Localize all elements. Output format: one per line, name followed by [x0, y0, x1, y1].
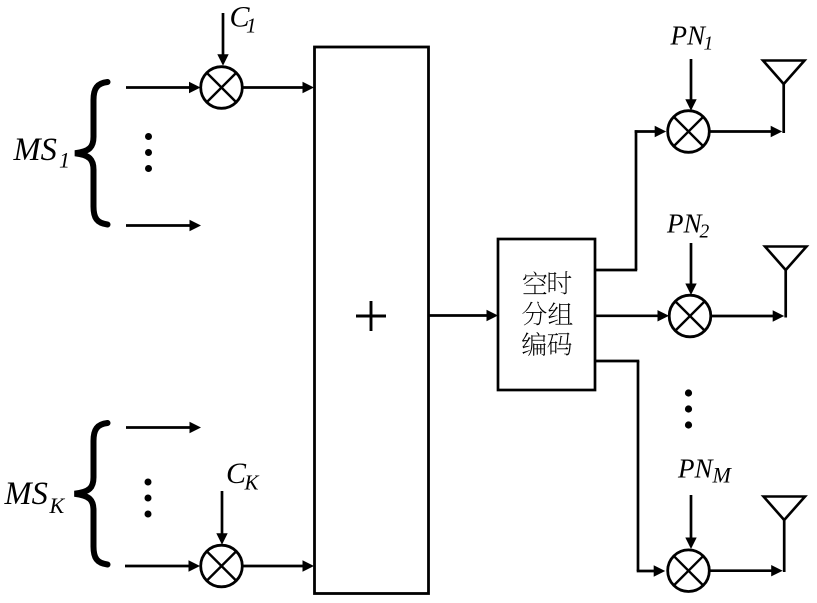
multiplier M3 (PN1) (circle with X) — [668, 111, 710, 153]
text glyph 码 — [547, 333, 571, 356]
antenna 1 — [763, 61, 805, 134]
vertical dots (antenna branches) — [685, 389, 692, 428]
adder block (tall rectangle) — [315, 47, 429, 594]
multiplier M5 (PNM) (circle with X) — [668, 550, 710, 592]
svg-text:1: 1 — [246, 13, 257, 37]
wire: PN1 down arrow into mixer — [685, 59, 696, 111]
svg-text:1: 1 — [704, 33, 714, 54]
wire: MSK top input arrow — [126, 422, 201, 433]
wire: mixer M3 output to antenna 1 — [709, 126, 782, 137]
wire: STBC middle output to mixer M4 — [595, 310, 669, 321]
svg-text:PN: PN — [670, 21, 707, 51]
multiplier M1 (spreading C1) (circle with X) — [201, 67, 243, 109]
multiplier M2 (spreading CK) (circle with X) — [201, 545, 243, 587]
wire: PNM down arrow into mixer — [685, 495, 696, 549]
svg-text:PN: PN — [666, 209, 703, 239]
svg-text:M: M — [712, 462, 733, 487]
text glyph 编 — [522, 332, 546, 356]
wire: MS1 bottom input arrow — [126, 220, 201, 231]
text glyph 时 — [549, 271, 572, 294]
brace for MSK inputs — [75, 423, 108, 565]
plus sign inside adder — [356, 301, 386, 331]
wire: MSK bottom input arrow — [125, 560, 200, 571]
wire: mixer M2 output to adder — [243, 560, 315, 571]
svg-text:MS: MS — [4, 476, 48, 512]
wire: mixer M1 output to adder — [243, 82, 315, 93]
label PN1 — [670, 21, 714, 55]
svg-text:2: 2 — [700, 222, 710, 243]
label MS1 — [13, 132, 71, 173]
multiplier M4 (PN2) (circle with X) — [669, 295, 711, 337]
wire: MS1 top input arrow — [126, 82, 201, 93]
STBC box (space-time block coding) — [498, 239, 595, 390]
svg-text:PN: PN — [677, 454, 714, 484]
label C1 — [230, 1, 257, 38]
svg-text:1: 1 — [59, 148, 70, 173]
text glyph 空 — [523, 271, 547, 294]
svg-text:K: K — [49, 493, 66, 518]
wire: CK down arrow into mixer — [216, 491, 227, 545]
antenna M — [764, 497, 806, 573]
wire: adder output to STBC box — [429, 310, 498, 321]
label PN2 — [666, 209, 710, 243]
svg-text:K: K — [244, 471, 260, 495]
antenna 2 — [765, 247, 807, 318]
vertical dots (MSK inputs) — [145, 479, 152, 518]
wire: mixer M4 output to antenna 2 — [711, 310, 785, 321]
text glyph 分 — [522, 302, 546, 326]
wire: mixer M5 output to antenna M — [709, 565, 783, 576]
text glyph 组 — [548, 302, 572, 324]
label PNM — [677, 454, 733, 488]
wire: STBC bottom output to mixer M5 — [595, 361, 665, 577]
svg-text:MS: MS — [13, 132, 57, 168]
wire: PN2 down arrow into mixer — [685, 243, 696, 295]
label CK — [226, 457, 260, 495]
brace for MS1 inputs — [75, 82, 108, 225]
label MSK — [4, 476, 66, 518]
wire: STBC top output to mixer M3 — [595, 126, 666, 270]
wire: C1 down arrow into mixer — [217, 13, 228, 66]
vertical dots (MS1 inputs) — [145, 133, 152, 172]
